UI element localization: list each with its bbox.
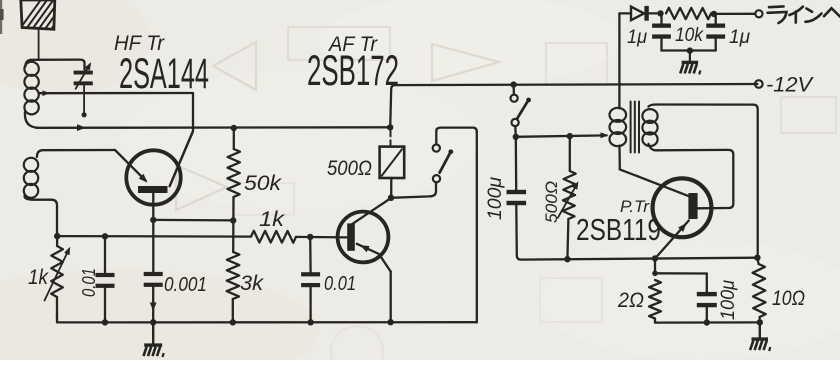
svg-text:50k: 50k [244, 172, 283, 195]
svg-text:500Ω: 500Ω [327, 157, 372, 180]
svg-text:2SB119: 2SB119 [576, 212, 661, 247]
svg-text:500Ω: 500Ω [542, 181, 561, 223]
svg-text:10k: 10k [675, 25, 704, 46]
svg-text:1μ: 1μ [729, 27, 751, 48]
svg-text:1k: 1k [28, 266, 49, 289]
svg-text:100μ: 100μ [718, 279, 739, 320]
svg-text:1k: 1k [259, 208, 286, 231]
svg-text:2Ω: 2Ω [617, 289, 644, 312]
svg-text:3k: 3k [240, 272, 265, 295]
svg-text:-12V: -12V [766, 74, 814, 97]
svg-text:2SA144: 2SA144 [119, 50, 209, 98]
svg-text:10Ω: 10Ω [772, 287, 805, 310]
svg-text:0.001: 0.001 [164, 274, 207, 296]
svg-text:0.01: 0.01 [324, 273, 356, 295]
svg-text:2SB172: 2SB172 [307, 47, 399, 95]
svg-text:0.01: 0.01 [79, 268, 99, 297]
svg-text:1μ: 1μ [627, 27, 648, 48]
svg-text:100μ: 100μ [485, 176, 506, 220]
